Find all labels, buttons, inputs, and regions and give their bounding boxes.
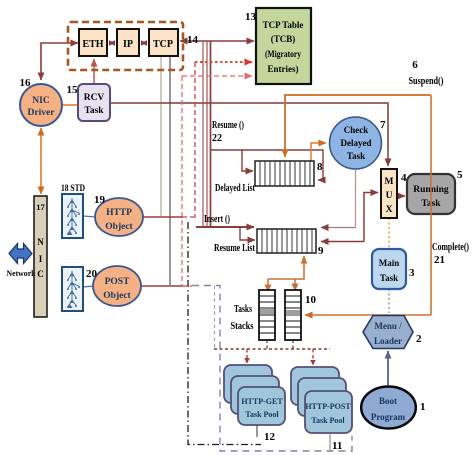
svg-text:15: 15 [67,84,79,96]
svg-text:Object: Object [103,291,131,301]
svg-text:Delayed: Delayed [341,138,372,148]
svg-text:Suspend(): Suspend() [409,76,444,87]
svg-text:3: 3 [409,267,415,279]
svg-text:(TCB): (TCB) [271,34,296,44]
svg-text:RCV: RCV [84,93,105,103]
svg-text:Tasks: Tasks [234,304,252,315]
svg-text:Stacks: Stacks [231,321,254,332]
svg-text:Task Pool: Task Pool [311,416,345,425]
svg-text:8: 8 [317,161,323,173]
svg-text:6: 6 [412,59,418,71]
svg-text:Object: Object [105,222,133,232]
svg-text:(Migratory: (Migratory [265,49,301,59]
svg-text:Driver: Driver [28,108,56,118]
svg-text:C: C [37,269,44,279]
svg-text:16: 16 [20,77,32,89]
svg-text:19: 19 [94,194,106,206]
svg-text:HTTP-POST: HTTP-POST [305,402,351,411]
svg-text:Complete(): Complete() [432,242,469,253]
svg-text:Resume List: Resume List [214,243,255,254]
svg-text:12: 12 [264,431,276,443]
svg-text:HTTP: HTTP [106,208,132,218]
svg-text:Task: Task [380,273,398,283]
svg-text:U: U [386,191,393,201]
svg-text:NIC: NIC [32,96,50,106]
svg-text:22: 22 [212,133,222,144]
svg-text:IP: IP [123,39,133,50]
svg-text:Network: Network [7,268,36,278]
svg-text:Loader: Loader [374,336,402,346]
svg-text:Insert (): Insert () [204,214,230,225]
svg-text:14: 14 [187,34,199,46]
svg-text:Delayed List: Delayed List [215,183,255,194]
svg-text:20: 20 [86,268,98,280]
svg-text:Resume (): Resume () [212,120,244,131]
svg-text:I: I [39,254,43,264]
svg-text:4: 4 [401,172,407,184]
svg-text:21: 21 [434,254,445,266]
svg-text:2: 2 [416,333,422,345]
svg-text:7: 7 [380,119,386,131]
svg-text:Task: Task [347,151,365,161]
svg-text:18 STD: 18 STD [61,184,85,194]
svg-text:N: N [37,237,44,247]
svg-text:10: 10 [305,294,317,306]
svg-text:9: 9 [318,245,324,257]
svg-text:M: M [385,177,394,187]
svg-text:TCP: TCP [153,39,173,50]
svg-text:Menu /: Menu / [374,321,402,331]
svg-text:Entries): Entries) [268,64,299,74]
svg-text:Check: Check [344,125,369,135]
svg-text:Main: Main [379,258,400,268]
svg-text:Task Pool: Task Pool [245,410,279,419]
svg-text:1: 1 [420,401,426,413]
svg-text:HTTP-GET: HTTP-GET [241,397,283,406]
svg-text:X: X [386,205,393,215]
svg-text:POST: POST [105,277,130,287]
svg-text:13: 13 [245,11,257,23]
svg-text:5: 5 [457,169,463,181]
svg-text:17: 17 [36,202,45,212]
svg-text:Boot: Boot [379,396,397,406]
svg-text:11: 11 [332,440,342,452]
svg-text:TCP Table: TCP Table [263,20,304,30]
svg-text:Program: Program [371,412,406,422]
svg-text:ETH: ETH [82,39,103,50]
svg-text:Task: Task [84,106,104,116]
